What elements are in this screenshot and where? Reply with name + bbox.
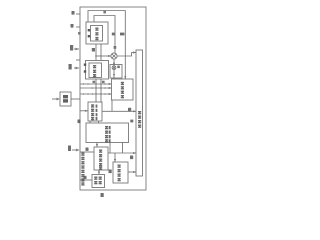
arrowhead 2 — [76, 67, 80, 70]
wire label on routing line — [103, 11, 106, 14]
arrowhead into U6 — [98, 172, 100, 175]
ref numeral bottom — [101, 193, 104, 197]
bus vertical left — [95, 79, 97, 102]
arrowhead into tall box y172 — [133, 171, 136, 173]
block U4 wide box — [86, 123, 129, 143]
U7 label text — [118, 165, 121, 168]
U2 label text — [93, 65, 96, 68]
routing label 2 — [120, 33, 124, 36]
block U8 small box — [110, 65, 122, 79]
frame label vertical text — [81, 153, 84, 156]
left arrow line 2 — [74, 67, 79, 69]
left arrow line 3 — [72, 149, 79, 151]
wire U1 to U2 left — [95, 44, 97, 61]
block U5 box — [94, 147, 108, 170]
left tick 2 — [76, 26, 80, 28]
arrowhead into U5 — [96, 144, 98, 147]
wire label below U2 right — [102, 81, 105, 83]
wire down to U4 — [89, 121, 91, 123]
block U2 outer box — [86, 61, 109, 80]
arrowhead into multiplier — [108, 55, 111, 57]
mixer circle 2 — [112, 66, 116, 70]
routing wire A up-over — [88, 11, 125, 80]
wire horizontal to tall box — [102, 110, 136, 112]
left arrow line 1 — [74, 48, 79, 50]
arrowhead into U9 top — [124, 76, 126, 79]
bus vertical right — [100, 79, 102, 102]
wire U5 to U6 — [98, 170, 100, 175]
wire U9 bottom stub — [111, 100, 113, 111]
wire U4 bottom stub right — [122, 143, 124, 154]
wire U1 to U2 right — [100, 44, 102, 61]
wire label near y153 — [130, 156, 133, 160]
block U2 inner box — [89, 63, 102, 78]
arrowheads bus into U9 left — [109, 83, 112, 85]
wire U4 bottom stub mid — [109, 143, 111, 154]
block U1 outer box — [86, 22, 108, 44]
arrowhead into tall box y53 — [133, 51, 136, 53]
bus line 3 — [80, 93, 112, 95]
label above U6 input — [84, 176, 87, 179]
arrowhead into tall box y112 — [133, 110, 136, 112]
multiplier cross — [112, 54, 116, 58]
U9 label text — [121, 82, 124, 85]
U1 label text — [95, 28, 98, 31]
U5 label text — [99, 150, 102, 153]
wire label between U1 U2 — [92, 48, 95, 52]
wire U2 to multiplier — [96, 55, 111, 57]
wire down to U7 — [114, 153, 116, 162]
wire frame edge to U3 — [80, 110, 88, 112]
wire U4 bottom stub left — [96, 143, 98, 148]
mixer 2 cross — [113, 67, 115, 69]
U1 pin marks — [88, 29, 90, 31]
arrowhead 3 — [57, 98, 61, 101]
block U7 box — [113, 162, 128, 183]
routing label 1 — [112, 33, 115, 36]
outer frame (device box) — [80, 7, 146, 190]
U6 label text — [94, 177, 97, 180]
input line to U6 — [80, 179, 92, 181]
ref numeral left 5 — [78, 120, 81, 124]
wire external box to frame — [71, 98, 80, 100]
wire horizontal U5 to tall box — [108, 152, 136, 154]
wire label near y112 — [128, 108, 131, 111]
input arrow to external box — [52, 98, 59, 100]
U8 label text — [117, 66, 120, 69]
U10 label text — [138, 111, 141, 114]
bus line 2 — [80, 87, 112, 89]
block U3 box — [88, 102, 102, 121]
multiplier circle — [111, 53, 117, 59]
ref numeral left 4 — [69, 64, 72, 70]
wire multiplier to tall box — [117, 53, 136, 57]
U3 label text — [91, 104, 94, 107]
label above U5 input — [86, 148, 89, 151]
wire multiplier down to mixer box — [113, 59, 115, 66]
U2 pin marks — [84, 64, 86, 66]
external box glyph — [63, 95, 68, 98]
junction dots — [95, 83, 97, 85]
block U1 inner box — [91, 26, 103, 42]
tick mark on edge y33 — [78, 32, 81, 35]
arrowhead into tall box y153 — [133, 152, 136, 154]
ref numeral left 1 — [72, 11, 75, 15]
left tick 1 — [76, 13, 80, 15]
routing wire B up-over — [94, 16, 115, 53]
wire label left of U7 — [109, 170, 112, 174]
arrowhead into U7 — [114, 159, 116, 162]
wire label below U2 left — [93, 81, 96, 83]
ref numeral left 6 — [68, 146, 71, 152]
wire U7 to tall box — [128, 171, 136, 173]
tall block U10 — [136, 50, 143, 176]
circle label — [114, 46, 117, 49]
U4 label text — [105, 126, 108, 129]
ref numeral left 2 — [71, 24, 74, 28]
block U9 box — [112, 79, 134, 100]
arrowhead 1 — [76, 48, 80, 51]
block U6 box — [92, 175, 105, 188]
arrowhead 4 — [76, 149, 80, 152]
external box antenna — [60, 92, 71, 106]
arrowhead into U8 — [113, 63, 115, 65]
bus line 1 — [80, 83, 112, 85]
input line to U5 — [80, 151, 94, 153]
left tick 3 — [76, 59, 80, 61]
ref numeral left 3 — [70, 45, 73, 51]
